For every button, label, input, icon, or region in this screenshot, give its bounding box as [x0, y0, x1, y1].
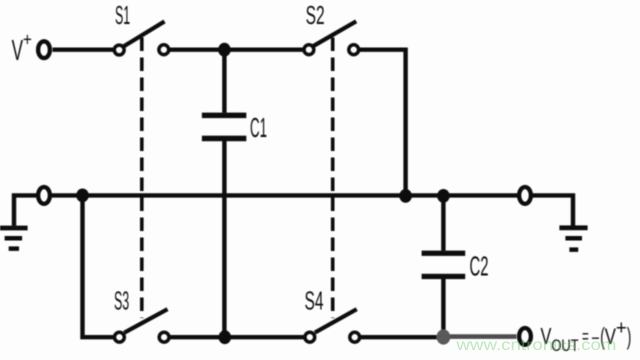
junction node S2 drop — [399, 189, 412, 203]
terminal VOUT — [519, 328, 531, 345]
label V+ — [12, 30, 32, 68]
wire down-left leg — [83, 195, 114, 337]
junction node C2 top — [437, 189, 450, 203]
switch S2 — [304, 0, 359, 54]
svg-text:+: + — [23, 30, 32, 50]
terminal mid-left — [38, 187, 50, 204]
junction node C2 bottom (gray) — [437, 329, 451, 344]
svg-text:C2: C2 — [470, 251, 489, 282]
junction node top — [218, 43, 231, 57]
wire V+ to S1 — [53, 48, 114, 52]
right ground — [559, 225, 587, 252]
svg-text:S4: S4 — [305, 286, 324, 316]
terminal V+ — [38, 41, 50, 58]
svg-text:S2: S2 — [306, 0, 325, 30]
svg-text:): ) — [627, 323, 632, 350]
junction node mid-left — [76, 189, 89, 203]
wire to right ground — [532, 195, 573, 225]
wire output (gray) — [450, 334, 517, 339]
switch S1 — [114, 0, 168, 55]
svg-text:www.cntronics.com: www.cntronics.com — [455, 337, 616, 354]
label VOUT = -(V+) — [541, 318, 632, 356]
wire S2 down to mid rail — [360, 50, 406, 196]
svg-text:C1: C1 — [250, 112, 267, 143]
svg-text:S3: S3 — [114, 286, 129, 316]
dashed gang line S2-S4 — [331, 38, 335, 319]
svg-text:V: V — [12, 35, 24, 67]
svg-text:+: + — [616, 318, 627, 340]
mid rail wire — [51, 193, 518, 197]
switch S4 — [305, 286, 360, 343]
left ground — [0, 195, 38, 251]
junction node bottom C1 — [219, 330, 232, 344]
wire S1 to S2 with node — [170, 48, 304, 52]
capacitor C2 — [422, 196, 489, 337]
switch S3 — [114, 286, 169, 343]
capacitor C1 — [202, 50, 267, 338]
wire S3 to S4 with node — [170, 335, 304, 339]
svg-text:S1: S1 — [115, 0, 130, 30]
dashed gang line S1-S3 — [140, 38, 144, 319]
wire S4 to C2 bottom — [361, 335, 437, 339]
terminal mid-right — [519, 187, 531, 204]
